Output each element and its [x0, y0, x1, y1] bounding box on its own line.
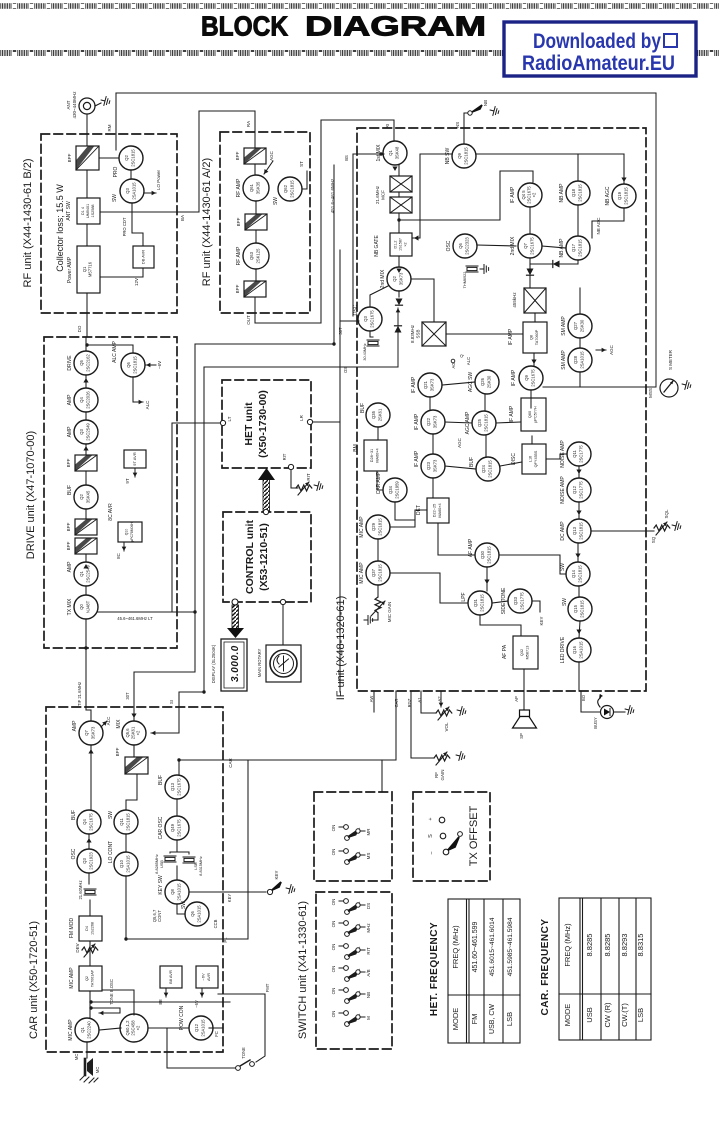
svg-text:SW: SW	[560, 563, 566, 571]
svg-text:RA: RA	[246, 121, 251, 127]
svg-text:AMP: AMP	[67, 561, 73, 573]
arrow drive stage 2	[83, 446, 88, 451]
wire noise amp chain	[578, 466, 580, 478]
svg-text:2SC1675: 2SC1675	[177, 819, 182, 837]
svg-text:Q17: Q17	[571, 243, 576, 252]
wire Q6 to Q7	[477, 245, 516, 246]
svg-text:2SC1815: 2SC1815	[378, 564, 383, 582]
transistor Q61 RF AMP	[236, 175, 269, 201]
BPF RF B/2	[67, 146, 99, 170]
svg-text:MIC AMP: MIC AMP	[69, 967, 75, 989]
svg-text:−: −	[429, 851, 435, 854]
svg-text:BM: BM	[353, 444, 359, 452]
crystal ground	[480, 265, 489, 274]
svg-text:ON: ON	[331, 988, 336, 995]
svg-text:Q0: Q0	[79, 604, 84, 610]
wire KEY from Q33	[532, 601, 540, 612]
transistor Q2 PRO	[113, 146, 143, 177]
svg-text:−6V: −6V	[194, 1000, 199, 1008]
svg-text:2SC1815: 2SC1815	[487, 546, 492, 564]
DB AVR box	[133, 246, 154, 268]
svg-text:TIF 21.6MHz: TIF 21.6MHz	[77, 682, 82, 706]
wire crystal to FM MOD	[89, 900, 91, 916]
svg-text:9T: 9T	[125, 478, 130, 484]
svg-text:Q28: Q28	[573, 355, 578, 364]
terminal control bottom left	[232, 599, 238, 605]
wire Q37 to MIC GAIN	[377, 585, 379, 597]
svg-text:2SK30: 2SK30	[580, 319, 585, 332]
svg-text:BS: BS	[344, 155, 349, 161]
svg-text:2SA1015: 2SA1015	[132, 182, 137, 200]
svg-text:BO: BO	[581, 694, 586, 701]
svg-text:ON: ON	[331, 849, 336, 856]
svg-text:451.6015~461.6014: 451.6015~461.6014	[489, 917, 496, 976]
RF GAIN ground	[455, 751, 466, 762]
svg-text:KEY: KEY	[539, 616, 544, 625]
svg-text:MC: MC	[95, 1067, 100, 1074]
svg-text:Q32: Q32	[520, 649, 524, 656]
wire Q35 to BM	[377, 427, 379, 440]
svg-text:Q10: Q10	[125, 529, 129, 536]
svg-text:BUF: BUF	[469, 457, 475, 467]
svg-text:BPF: BPF	[235, 284, 240, 293]
svg-text:FM: FM	[470, 1014, 479, 1025]
svg-text:RIT: RIT	[366, 947, 371, 955]
wire BM to Q34	[377, 471, 383, 490]
svg-text:451.6~461.6MHz: 451.6~461.6MHz	[330, 178, 335, 213]
svg-text:AMP: AMP	[67, 394, 73, 406]
arrow if chain 1	[576, 470, 581, 475]
svg-text:SM AMP: SM AMP	[561, 316, 567, 336]
svg-text:D1 4: D1 4	[81, 207, 85, 215]
wire Q31 to Q33	[492, 601, 508, 603]
diode D at Q7 output	[527, 269, 534, 276]
svg-text:2SC1959: 2SC1959	[395, 481, 400, 499]
switch TONE	[236, 1047, 255, 1070]
svg-text:MA60×4: MA60×4	[376, 448, 380, 462]
svg-text:3SK45: 3SK45	[86, 490, 91, 503]
BPF3 RF A/2	[235, 281, 266, 297]
svg-text:2nd MIX: 2nd MIX	[380, 269, 386, 288]
svg-text:DO: DO	[77, 325, 82, 332]
wire BUSY ground link	[614, 711, 625, 713]
svg-text:AGC: AGC	[457, 437, 462, 448]
svg-text:M57716: M57716	[88, 261, 93, 277]
svg-text:DRIVE unit (X47-1070-00): DRIVE unit (X47-1070-00)	[25, 431, 37, 559]
svg-text:3.000.0: 3.000.0	[230, 644, 241, 682]
svg-text:Q6: Q6	[458, 243, 463, 249]
arrow drive stage 1	[83, 378, 88, 383]
svg-text:IF AMP: IF AMP	[411, 376, 417, 393]
transistor Q62 SW	[273, 177, 302, 205]
svg-text:VOL: VOL	[444, 722, 449, 732]
svg-text:AF AMP: AF AMP	[468, 538, 474, 557]
svg-text:DEV: DEV	[75, 943, 80, 952]
svg-text:μPC78M06H: μPC78M06H	[130, 522, 134, 542]
svg-text:NB: NB	[483, 100, 488, 106]
svg-text:21.60MHz: 21.60MHz	[78, 880, 83, 899]
svg-text:Q5: Q5	[79, 360, 84, 366]
microphone MIC	[74, 1054, 100, 1083]
wire ANT SW to Power AMP	[86, 224, 88, 246]
svg-text:Q3: Q3	[79, 429, 84, 435]
wire MCF tap to IF AMP	[399, 171, 533, 220]
wire BPF right to PRO	[99, 157, 119, 159]
svg-text:L16: L16	[529, 456, 533, 462]
svg-text:S: S	[428, 834, 434, 838]
svg-text:RF AMP: RF AMP	[236, 246, 242, 265]
svg-text:A/B: A/B	[366, 969, 371, 976]
antenna ground stub	[95, 103, 101, 106]
wire Q17 to diode	[577, 260, 579, 264]
svg-text:FREQ (MHz): FREQ (MHz)	[563, 923, 572, 967]
svg-text:2SC1675: 2SC1675	[530, 237, 535, 255]
svg-text:Q11: Q11	[572, 450, 577, 458]
svg-text:Q33: Q33	[513, 596, 518, 605]
BPF1 RF A/2	[235, 148, 266, 164]
wire drive chain 1	[85, 337, 87, 351]
wire TIF drop	[86, 619, 91, 721]
junction 1st MIX feed	[379, 152, 382, 155]
svg-text:PRO: PRO	[113, 166, 119, 177]
transistor Q18 NB AMP	[559, 181, 590, 205]
svg-text:AGC: AGC	[269, 150, 274, 161]
svg-text:OSC: OSC	[71, 848, 77, 859]
svg-text:BUF: BUF	[158, 775, 164, 785]
B8 arrow	[164, 988, 169, 997]
ALC arrow car	[101, 721, 107, 727]
VOL ground	[456, 706, 467, 717]
wire Q13 to Q14	[577, 543, 579, 562]
AGC arrow sm	[596, 348, 606, 353]
svg-text:Q14: Q14	[571, 569, 576, 578]
svg-text:GAIN: GAIN	[440, 769, 445, 780]
svg-text:8.83MHz: 8.83MHz	[410, 324, 415, 343]
svg-text:NB GATE: NB GATE	[374, 235, 380, 257]
svg-text:BPF: BPF	[66, 541, 71, 550]
wire LO 451.6MHz feed	[195, 165, 334, 612]
MIC GAIN ground	[364, 616, 373, 625]
wire NB GATE to Q2	[398, 256, 400, 267]
transistor Q26 AGC SW	[468, 370, 499, 394]
wire drive chain 8	[85, 586, 87, 595]
svg-text:DB AVR: DB AVR	[141, 250, 146, 264]
svg-text:CW.(T): CW.(T)	[620, 1003, 629, 1027]
svg-text:30.43MHz: 30.43MHz	[363, 343, 367, 360]
transistor Q2 BUF drive	[67, 485, 98, 509]
wire Q22 to Q25	[445, 422, 472, 423]
transistor Q4 BUF car	[71, 810, 101, 834]
transistor Q9 NB SW	[445, 144, 476, 168]
svg-text:Q4 5: Q4 5	[521, 190, 526, 200]
svg-text:21.6MHz: 21.6MHz	[375, 185, 380, 204]
svg-text:SIDE TONE: SIDE TONE	[501, 587, 507, 614]
wire left long vertical	[203, 367, 205, 692]
wire BPF2 to Q63	[255, 230, 257, 243]
transistor Q10 LO CONT	[108, 841, 138, 876]
wire Q22 to Q23	[432, 434, 434, 454]
junction Q10-PL	[124, 937, 127, 940]
wire Q30 to Q31	[486, 567, 488, 591]
wire rotary to control	[282, 605, 284, 645]
svg-text:1S1587: 1S1587	[399, 238, 403, 251]
IF AMP Q60 box	[509, 398, 546, 431]
wire KEY out	[189, 891, 266, 893]
svg-text:Q24: Q24	[481, 464, 486, 473]
FM MOD diode box D4	[69, 916, 102, 941]
transistor Q5 DRIVE	[67, 351, 98, 375]
transistor Q24 BUF	[469, 457, 500, 481]
svg-text:451.60~461.599: 451.60~461.599	[472, 921, 479, 972]
svg-text:MSS: MSS	[648, 388, 653, 398]
NB switch ground	[489, 106, 500, 117]
wire Q13 to SQL	[591, 530, 654, 532]
svg-text:MR: MR	[366, 828, 371, 836]
DRIVE unit dashed box	[44, 337, 177, 648]
wire Q60 to DISC	[531, 436, 533, 444]
wire LT from TX MIX	[98, 611, 195, 613]
svg-text:DC AMP: DC AMP	[560, 521, 566, 541]
transistor Q49 CAR OSC	[158, 816, 189, 840]
svg-text:ANT: ANT	[66, 100, 71, 109]
arrow q30 in	[484, 580, 489, 585]
svg-text:MIC GAIN: MIC GAIN	[387, 602, 392, 623]
wire BPF to Q11	[126, 774, 137, 810]
crystal USB 8.8285MHz	[164, 856, 176, 862]
transistor Q6 ALC AMP	[112, 341, 145, 377]
svg-text:Q4: Q4	[82, 819, 87, 825]
wire BO to BUSY	[581, 711, 600, 713]
terminal LR	[307, 419, 312, 424]
svg-text:RadioAmateur.EU: RadioAmateur.EU	[522, 52, 675, 75]
wire Q21 to Q26	[442, 382, 475, 385]
svg-text:DIAGRAM: DIAGRAM	[305, 11, 486, 42]
wire tone osc into Q1	[99, 1011, 120, 1016]
svg-text:LSB: LSB	[636, 1008, 645, 1022]
junction mic top	[89, 1006, 92, 1009]
svg-text:Q22: Q22	[426, 417, 431, 426]
svg-text:451.5985~461.5984: 451.5985~461.5984	[507, 917, 514, 976]
wire Q7 to 455 filter	[529, 258, 531, 288]
wire drive chain 2	[85, 375, 87, 388]
svg-text:MCF: MCF	[381, 190, 386, 200]
wire Q31 to AF PA	[480, 615, 521, 636]
svg-text:SI: SI	[169, 700, 174, 704]
wire Q11 to Q10	[125, 834, 127, 852]
svg-text:MC: MC	[74, 1054, 79, 1061]
wire Q4 to Q3	[88, 834, 90, 849]
wire BS to 1st MIX	[353, 153, 384, 155]
svg-text:Q12: Q12	[194, 1023, 199, 1032]
svg-text:2SA1015: 2SA1015	[580, 351, 585, 369]
svg-text:MIC AMP: MIC AMP	[68, 1019, 74, 1041]
wire MCF1 to MCF2	[398, 192, 400, 197]
transistor Q12 NOISE AMP	[560, 476, 591, 504]
wire PL right	[224, 760, 248, 939]
svg-text:2SC1675: 2SC1675	[370, 310, 375, 328]
arrow car stage 2	[86, 838, 91, 843]
wire Q16 to BO	[579, 662, 581, 712]
svg-text:Downloaded by: Downloaded by	[533, 30, 661, 53]
svg-text:SW: SW	[112, 194, 118, 202]
svg-text:AVR: AVR	[206, 973, 211, 981]
svg-text:×2: ×2	[136, 1025, 141, 1030]
svg-text:CAR: CAR	[228, 758, 233, 768]
wire Q28 to meter line	[579, 372, 581, 387]
svg-text:BPF: BPF	[67, 153, 72, 162]
svg-text:SQL: SQL	[664, 509, 669, 519]
svg-text:NB AMP: NB AMP	[559, 183, 565, 203]
S meter ground	[681, 380, 692, 391]
svg-text:Q61: Q61	[249, 183, 254, 192]
svg-text:SW: SW	[181, 901, 187, 909]
wire Q2 to Q3	[130, 170, 132, 179]
svg-text:RI: RI	[385, 124, 390, 129]
svg-text:BPF: BPF	[236, 217, 241, 226]
svg-text:Power AMP: Power AMP	[67, 256, 73, 283]
Power AMP Q1 M57716	[67, 246, 100, 293]
svg-text:3SK73: 3SK73	[91, 726, 96, 739]
transistor Q15 SW	[562, 597, 592, 621]
svg-text:2SK125: 2SK125	[256, 248, 261, 264]
svg-text:BUSY: BUSY	[593, 717, 598, 729]
wire Q30 to Q14	[499, 555, 566, 574]
crystal LSB 8.8315MHz	[183, 857, 195, 863]
svg-text:3SK73: 3SK73	[433, 415, 438, 428]
MAIN ROTARY encoder	[257, 645, 301, 682]
svg-text:ON: ON	[331, 899, 336, 906]
svg-text:1S2588: 1S2588	[91, 204, 95, 217]
wire NB rect line	[530, 263, 578, 265]
-6V AVR box	[196, 966, 218, 988]
wire Q7 to Q17	[542, 246, 566, 248]
svg-text:2SA1015: 2SA1015	[126, 855, 131, 873]
wire Q25 to Q24	[485, 435, 487, 457]
svg-text:IF AMP: IF AMP	[414, 413, 420, 430]
svg-text:2SC1815: 2SC1815	[580, 600, 585, 618]
svg-text:Q60,1,2: Q60,1,2	[125, 1020, 130, 1036]
wire NS to NB switch	[464, 113, 467, 144]
svg-text:PL: PL	[223, 937, 228, 943]
svg-text:3SK73: 3SK73	[399, 272, 404, 285]
svg-text:Q23: Q23	[426, 461, 431, 470]
svg-text:AMP: AMP	[72, 720, 78, 732]
svg-text:S METER: S METER	[668, 349, 673, 370]
switch NB unit	[331, 988, 371, 1004]
svg-text:BUF: BUF	[67, 485, 73, 495]
svg-text:Q2: Q2	[79, 494, 84, 500]
svg-text:IF unit (X48-1320-61): IF unit (X48-1320-61)	[335, 596, 347, 701]
svg-text:3SK73: 3SK73	[430, 378, 435, 391]
svg-text:+: +	[428, 817, 434, 820]
B8 AVR box	[160, 966, 182, 988]
RF unit B/2 dashed box	[41, 134, 177, 313]
svg-text:LPF: LPF	[461, 592, 467, 601]
transistor Q37 MIC AMP	[359, 561, 390, 585]
wire Q3 up to Q2 mix	[370, 286, 388, 307]
svg-text:8.8285MHz: 8.8285MHz	[155, 854, 159, 874]
wire AW drop	[373, 691, 375, 712]
svg-text:AF PA: AF PA	[502, 644, 508, 659]
S meter	[660, 349, 678, 397]
arrow if chain 3	[575, 554, 580, 559]
svg-text:455kHz: 455kHz	[512, 292, 517, 308]
svg-text:FMT: FMT	[265, 983, 270, 992]
arrow into NB GATE	[414, 235, 419, 240]
svg-text:×2: ×2	[532, 192, 537, 197]
BPF drive 1	[66, 455, 97, 471]
wire Q25 to Q60	[496, 422, 520, 423]
transistor Q28 SM AMP	[561, 348, 592, 372]
wire Q12 to FC	[209, 1027, 223, 1029]
svg-text:2SC1675: 2SC1675	[531, 369, 536, 387]
arrow drive stage 3	[83, 564, 88, 569]
HET unit dashed box	[222, 380, 311, 468]
NB GATE diode box	[374, 233, 412, 257]
9T arrow	[133, 468, 138, 477]
svg-text:2SC1815: 2SC1815	[488, 460, 493, 478]
wire drive chain 5	[85, 471, 87, 485]
diode 2nd MIX injection	[395, 326, 402, 333]
wire 455 to Q8 path	[534, 313, 536, 322]
wire LT up to HET	[172, 423, 222, 612]
svg-text:MODE: MODE	[451, 1008, 460, 1031]
svg-text:2SC1815: 2SC1815	[480, 594, 485, 612]
wire Q1 to Q60 tone	[99, 1028, 121, 1030]
wire DET to Q30	[438, 523, 475, 555]
wire antenna to BPF	[86, 114, 88, 146]
wire A1 to VOL	[421, 691, 436, 713]
svg-text:2SC1815: 2SC1815	[624, 187, 629, 205]
svg-text:MA60×4: MA60×4	[438, 503, 442, 517]
wire DO junction to Q6	[87, 345, 133, 353]
svg-text:RF unit (X44-1430-61 B/2): RF unit (X44-1430-61 B/2)	[22, 158, 34, 287]
crystal 30.43MHz	[367, 340, 379, 346]
svg-text:SM AMP: SM AMP	[561, 350, 567, 370]
svg-text:CAR. FREQUENCY: CAR. FREQUENCY	[540, 918, 551, 1015]
junction LT LO	[193, 610, 196, 613]
wire Q21 to Q22	[429, 397, 431, 410]
arrow if chain 4	[576, 630, 581, 635]
svg-text:RIT: RIT	[306, 473, 311, 481]
TX OFFSET contacts	[428, 817, 462, 855]
svg-text:LR: LR	[299, 414, 304, 421]
RIT ground	[313, 481, 324, 492]
diode D NB	[553, 261, 560, 268]
wire PRO CDT	[132, 203, 143, 246]
wire SI to MIX	[151, 731, 179, 736]
wire Q14 to Q15	[578, 586, 580, 597]
svg-text:2SC1775: 2SC1775	[520, 592, 525, 610]
wire key sw chain	[177, 904, 185, 914]
svg-text:Q3: Q3	[125, 188, 130, 194]
8C AVR box Q10	[108, 503, 142, 542]
wire drive chain 6	[85, 509, 87, 519]
svg-text:ON: ON	[331, 1011, 336, 1018]
svg-text:LT: LT	[227, 416, 232, 421]
wire RGZ drop	[411, 691, 433, 758]
svg-text:Q1: Q1	[388, 150, 393, 156]
svg-text:USB: USB	[160, 860, 164, 868]
transistor Q23 IF AMP	[414, 450, 445, 478]
svg-text:2SC1775: 2SC1775	[579, 445, 584, 463]
svg-text:430~440MHz: 430~440MHz	[72, 91, 77, 119]
wire Q18 to Q17	[577, 205, 579, 236]
wire Q8 to Q9	[533, 353, 535, 366]
svg-text:FREQ (MHz): FREQ (MHz)	[451, 925, 460, 969]
wire drive chain 4	[85, 444, 87, 455]
junction mic top2	[89, 1000, 92, 1003]
